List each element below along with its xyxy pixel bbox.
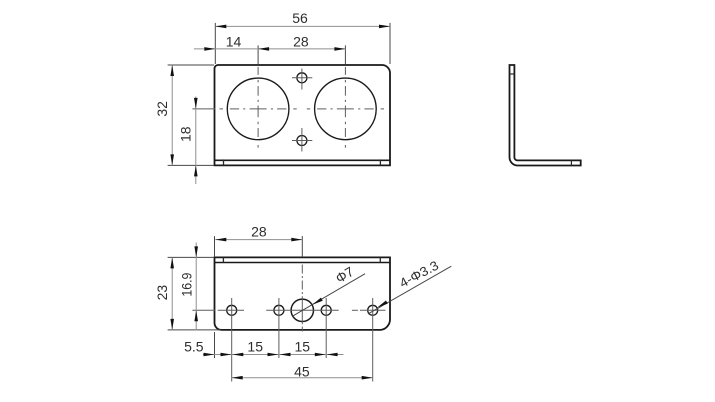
crosshair small hole top	[292, 69, 312, 90]
hole 4	[368, 305, 378, 315]
side view bend tick right	[570, 160, 572, 165]
dim 56 extension lines	[214, 23, 216, 64]
svg-text:Φ7: Φ7	[333, 264, 356, 286]
svg-text:14: 14	[226, 34, 242, 50]
svg-text:15: 15	[247, 338, 263, 354]
dim 28b extension lines	[214, 236, 216, 256]
svg-text:15: 15	[295, 338, 311, 354]
dim 28b line	[215, 239, 302, 241]
dim 23 extension lines	[168, 256, 214, 258]
svg-text:16.9: 16.9	[178, 272, 194, 296]
centerline vertical right hole	[344, 67, 346, 148]
dim 18 extension line at hole centerline	[192, 108, 215, 110]
svg-text:5.5: 5.5	[184, 338, 204, 354]
dim 32 arrows	[170, 65, 174, 76]
front view bend line (inner strip line)	[215, 159, 391, 161]
dim 32 extension lines	[168, 64, 214, 66]
svg-text:28: 28	[293, 34, 309, 50]
dim 5.5/15/15 line	[203, 354, 344, 356]
hole 1	[227, 305, 237, 315]
svg-text:4-Φ3.3: 4-Φ3.3	[397, 258, 441, 291]
centerline horizontal through big holes	[220, 108, 385, 110]
big hole right	[315, 78, 377, 140]
svg-text:23: 23	[154, 285, 170, 301]
dim 32 line	[171, 65, 173, 165]
dim 5.5/15/15 extension lines	[214, 332, 216, 358]
front view strip tick right	[379, 159, 381, 165]
leader phi7	[293, 274, 366, 317]
svg-text:18: 18	[178, 126, 194, 142]
bottom view inner strip line	[215, 262, 391, 264]
center hole vertical centerline	[301, 265, 303, 332]
bottom view plate outline	[215, 257, 391, 330]
dim 56 line	[215, 25, 390, 27]
dim 18 line with outside arrows	[195, 97, 197, 185]
dim 16.9 line with outside arrows	[195, 243, 197, 331]
svg-text:45: 45	[294, 363, 310, 379]
hole row centerline	[192, 309, 385, 311]
dim 14/28 line	[194, 48, 346, 50]
dim 23 line	[171, 257, 173, 330]
svg-text:32: 32	[154, 101, 170, 117]
svg-text:56: 56	[292, 10, 308, 26]
front view plate outline	[215, 65, 391, 165]
dim 28 arrow right	[334, 47, 345, 51]
bottom view strip tick left	[222, 257, 224, 262]
side view bend tick top	[510, 73, 515, 75]
front view strip tick left	[223, 159, 225, 165]
big hole left	[227, 78, 289, 140]
dim 14 arrow outside-left	[204, 47, 215, 51]
side view L profile	[510, 65, 581, 166]
hole 3	[321, 305, 331, 315]
bottom view strip tick right	[379, 257, 381, 262]
dim 45 line	[232, 377, 373, 379]
leader 4-phi3.3	[368, 266, 451, 314]
center hole phi7	[291, 299, 313, 321]
crosshair small hole bottom	[292, 128, 312, 152]
arrows chain	[204, 353, 215, 357]
small hole top	[297, 73, 307, 83]
hole 2	[274, 305, 284, 315]
small hole bottom	[297, 136, 307, 146]
hole vertical crosshair + extension lines	[231, 298, 233, 382]
dim 56 arrows	[215, 25, 226, 29]
dim 28 arrow left	[258, 47, 269, 51]
dim 14 / 28 extension lines	[257, 45, 259, 64]
centerline vertical left hole	[257, 67, 259, 148]
svg-text:28: 28	[251, 224, 267, 240]
